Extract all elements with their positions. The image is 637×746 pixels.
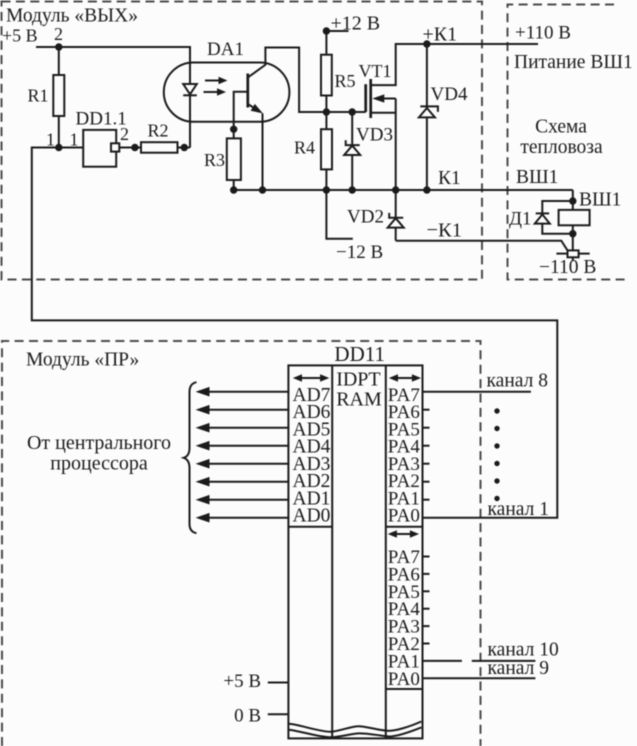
ellipsis dots [494,408,499,413]
ellipsis dot 498.5 [494,496,499,501]
wire R3 bottom [233,180,235,190]
svg-text:R5: R5 [335,71,356,91]
svg-text:R1: R1 [28,86,49,106]
bus arrow AD7 [207,391,289,393]
wire R2 to LED [178,147,191,149]
svg-text:2: 2 [120,124,129,144]
svg-text:Питание ВШ1: Питание ВШ1 [514,52,633,73]
+110V rail [396,43,538,45]
optocoupler DA1 body [164,63,290,122]
resistor R2 [141,142,178,153]
pin stub y=445.7 [423,445,430,447]
junction (262.5,190) [259,186,266,193]
phototransistor base bar [246,74,249,108]
svg-text:VD2: VD2 [347,207,384,228]
pin stub y=643.5 [423,643,430,645]
svg-text:−110 В: −110 В [539,257,596,278]
gate wire [326,111,365,113]
wire R1 bottom lead [58,116,60,148]
switch contact [556,253,567,255]
svg-text:Схема: Схема [535,117,587,138]
junction after pin2 [131,144,138,151]
node 1 [55,144,62,151]
svg-text:+5 В: +5 В [223,671,261,692]
svg-text:От центрального: От центрального [27,432,171,454]
bus arrow AD6 [207,409,289,411]
junction base/R3 [230,126,237,133]
svg-text:ВШ1: ВШ1 [579,190,621,211]
gate node junction [323,108,330,115]
junction (426.9,44) [423,40,430,47]
pin stub y=573.9 [423,573,430,575]
pin stub y=481.7 [423,481,430,483]
svg-text:Модуль «ВЫХ»: Модуль «ВЫХ» [6,6,138,27]
PA stubs bank1 [423,409,430,411]
zener VD3 [349,108,356,115]
light arrow 2 [204,91,219,93]
svg-text:канал 8: канал 8 [487,371,548,392]
svg-text:канал 1: канал 1 [488,499,549,520]
svg-text:PA0: PA0 [388,669,420,690]
pin stub y=626.1 [423,625,430,627]
svg-text:процессора: процессора [50,453,148,475]
base wire to R3 [234,92,248,139]
ellipsis dot 463.5 [494,461,499,466]
svg-text:ВШ1: ВШ1 [516,167,558,188]
light arrow 1 [205,80,220,82]
resistor R5 [325,31,327,55]
svg-text:2: 2 [54,24,63,44]
resistor R3 [227,138,241,180]
svg-text:VD4: VD4 [431,84,468,105]
svg-text:−12 В: −12 В [336,242,383,263]
wavy break lines [288,722,421,732]
svg-text:Д1: Д1 [509,209,531,230]
bus arrow AD3 [207,463,289,465]
module PR dashed box [2,341,481,746]
diode D1 branch [542,201,573,234]
module VYH dashed box [2,2,483,280]
PA stubs bank2 [423,556,430,558]
kanal 10 wire PA1 [423,660,462,662]
pin stub y=427.7 [423,427,430,429]
junction (395.7,190) [392,186,399,193]
gate DD1.1 [83,130,116,167]
collector wire to gate node [248,48,327,113]
ellipsis dot 446 [494,443,499,448]
bidir arrow left column [301,377,321,379]
svg-text:канал 9: канал 9 [488,658,549,679]
emitter wire down [262,113,264,190]
junction (326.4,190) [323,186,330,193]
pin stub y=499.7 [423,499,430,501]
bus arrow AD5 [207,427,289,429]
inter-module wire [32,148,558,518]
svg-text:+5 В: +5 В [2,26,38,46]
wire +5V rail [36,47,190,148]
svg-text:Модуль «ПР»: Модуль «ПР» [26,350,139,371]
ellipsis dot 481 [494,478,499,483]
pin stub y=591.3 [423,590,430,592]
svg-text:+110 В: +110 В [515,23,571,44]
svg-text:−К1: −К1 [427,220,463,242]
junction (352.2,190) [349,186,356,193]
svg-text:К1: К1 [438,168,461,189]
brace [184,382,197,533]
svg-text:0 В: 0 В [234,706,261,727]
kanal 9 wire PA0 [423,677,536,679]
svg-text:AD0: AD0 [293,506,331,527]
bidir arrow bank2 [396,533,411,535]
bus arrow AD2 [207,481,289,483]
minus rail K1 [234,189,573,191]
svg-text:DD11: DD11 [334,342,385,366]
svg-text:VD3: VD3 [356,125,393,146]
LED triangle [183,84,197,94]
LED cathode bar [183,94,197,96]
svg-text:IDPT: IDPT [336,369,380,391]
svg-text:RAM: RAM [336,389,382,411]
junction (326.4,31) [323,27,330,34]
zener VD4 [426,44,428,190]
bus arrow AD0 [207,517,289,519]
bus arrow AD1 [207,499,289,501]
wire DD1.1 to R2 [119,147,141,149]
svg-text:DA1: DA1 [207,39,244,60]
pin stub y=463.7 [423,463,430,465]
relay coil [572,201,574,210]
pin stub y=608.7 [423,608,430,610]
svg-text:R4: R4 [294,138,315,158]
-K1 wire [396,241,568,251]
pin 2 square of DD1.1 [111,143,119,151]
svg-text:R3: R3 [204,150,225,170]
resistor R4 [325,112,327,129]
resistor R1 [53,75,64,116]
-12V lead [326,190,352,239]
ellipsis dot 428.5 [494,426,499,431]
junction R2 right [181,144,188,151]
schema teplovoza dashed box [508,5,626,280]
svg-text:VT1: VT1 [359,61,392,81]
wire node1 to DD1.1 [59,147,83,149]
emitter with arrow [248,104,256,109]
bus arrow AD4 [207,445,289,447]
wire R1 top lead [58,47,60,75]
junction (233.7,190) [230,186,237,193]
bidir arrow right column [397,377,413,379]
node 2 [55,43,62,50]
VSh1 node wire [572,190,574,201]
junction (426.9,190) [423,186,430,193]
kanal 8 wire [423,391,531,393]
svg-text:PA0: PA0 [388,506,420,527]
svg-text:R2: R2 [148,121,169,141]
svg-text:тепловоза: тепловоза [520,137,603,158]
